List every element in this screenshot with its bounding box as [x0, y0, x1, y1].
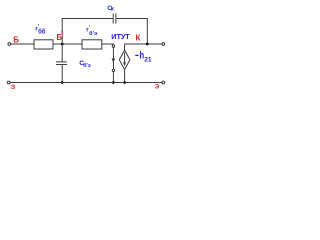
terminal Э right — [162, 81, 165, 84]
svg-text:Б: Б — [13, 35, 19, 44]
junction dot: C_б'э to Э rail — [61, 81, 64, 84]
terminal К — [162, 43, 165, 46]
svg-text:21: 21 — [144, 56, 152, 63]
wire r_бб' to Б' node and on to r_б'э — [53, 43, 82, 45]
ИТУТ input port upper terminal — [112, 45, 114, 47]
capacitor C_к plates — [112, 14, 114, 24]
wire C_к to К node — [116, 19, 147, 45]
wire C_б'э to Э rail — [61, 65, 63, 83]
ИТУТ control branch wire — [112, 47, 114, 82]
terminal Б — [8, 43, 11, 46]
node Б' (junction dot) — [61, 43, 64, 46]
svg-text:Э: Э — [11, 84, 16, 91]
junction dot: К node — [146, 43, 149, 46]
junction dot: current source to Э rail — [123, 81, 126, 84]
wire current source to Э rail — [124, 70, 126, 83]
svg-text:к: к — [111, 7, 114, 13]
wire Б' down to C_б'э — [61, 44, 63, 62]
svg-text:б'э: б'э — [89, 30, 97, 37]
resistor r_бб' — [34, 40, 53, 49]
label -h21 — [135, 54, 138, 56]
control current arrowhead — [112, 58, 116, 62]
ИТУТ input port lower terminal — [112, 69, 114, 71]
svg-text:Э: Э — [155, 83, 160, 90]
svg-text:б'э: б'э — [83, 62, 91, 69]
terminal Э left — [7, 81, 10, 84]
svg-text:К: К — [136, 33, 141, 42]
wire К node down to current source — [125, 44, 148, 50]
svg-text:ИТУТ: ИТУТ — [111, 32, 130, 41]
wire Б' up and across to C_к — [62, 19, 112, 45]
wire К node to К terminal — [147, 43, 162, 45]
capacitor C_б'э plates — [56, 61, 67, 63]
wire Б to r_бб' — [11, 43, 34, 45]
resistor r_б'э — [82, 40, 102, 49]
wire r_б'э to ИТУТ input port — [102, 44, 114, 45]
current source diamond (ИТУТ output) — [119, 50, 130, 70]
arrow inside current source — [124, 52, 126, 63]
junction dot: control branch to Э rail — [112, 81, 115, 84]
svg-text:бб: бб — [38, 28, 46, 35]
Э rail (bottom wire) — [10, 82, 162, 84]
